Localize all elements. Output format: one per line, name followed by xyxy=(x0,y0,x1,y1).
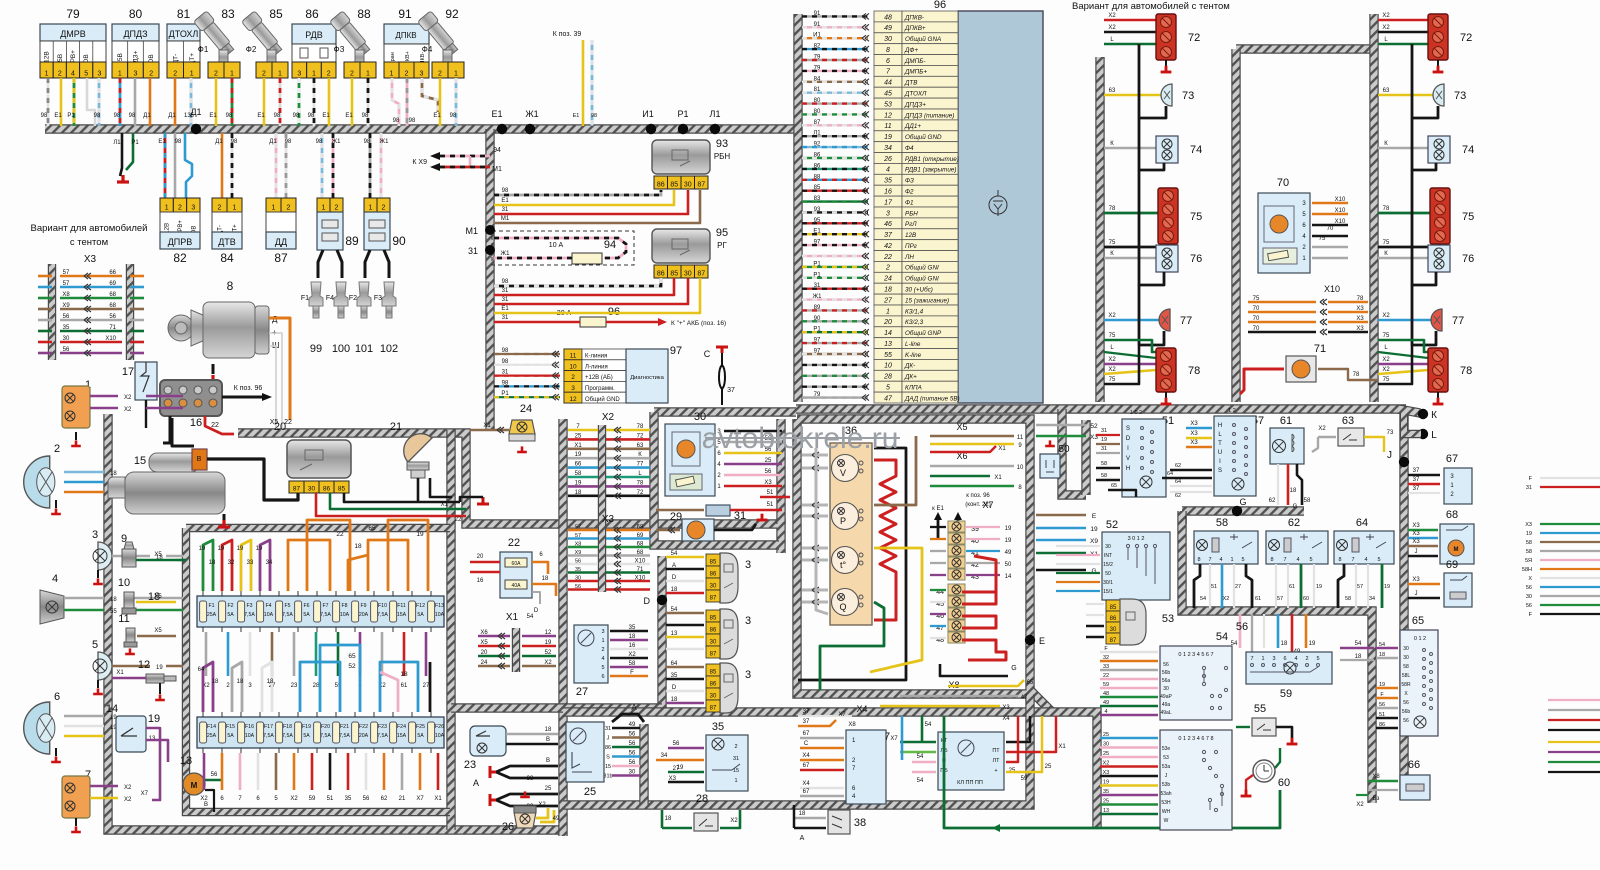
svg-text:24: 24 xyxy=(481,660,488,666)
wires to 69 xyxy=(1408,583,1440,585)
wire cluster green xyxy=(820,602,884,690)
svg-text:12В: 12В xyxy=(905,232,916,239)
svg-text:20А: 20А xyxy=(359,733,369,739)
svg-text:56: 56 xyxy=(109,314,116,320)
svg-text:ДФ+: ДФ+ xyxy=(904,47,918,54)
svg-text:23: 23 xyxy=(464,759,476,771)
svg-text:14: 14 xyxy=(884,330,892,337)
svg-text:+12В (АБ): +12В (АБ) xyxy=(585,375,613,381)
svg-text:63: 63 xyxy=(1109,88,1116,94)
svg-text:86: 86 xyxy=(323,486,331,493)
svg-text:Х2: Х2 xyxy=(124,797,132,803)
svg-text:В: В xyxy=(546,758,550,764)
svg-text:69: 69 xyxy=(637,533,644,539)
svg-text:F3: F3 xyxy=(374,295,382,302)
svg-text:0 1 2 3 4 6 7 8: 0 1 2 3 4 6 7 8 xyxy=(1178,736,1213,742)
svg-text:58: 58 xyxy=(1304,498,1311,504)
svg-text:D: D xyxy=(534,608,539,614)
svg-text:F19: F19 xyxy=(302,724,311,730)
svg-text:72: 72 xyxy=(1188,32,1200,44)
svg-text:53ah: 53ah xyxy=(1160,791,1171,797)
svg-text:Х5: Х5 xyxy=(154,628,162,634)
svg-text:5: 5 xyxy=(601,665,604,671)
svg-text:7,5А: 7,5А xyxy=(282,733,293,739)
svg-text:19: 19 xyxy=(1526,531,1532,537)
svg-text:12: 12 xyxy=(569,396,577,403)
svg-text:35: 35 xyxy=(671,673,678,679)
svg-text:7: 7 xyxy=(1250,656,1253,662)
svg-text:76: 76 xyxy=(1190,253,1202,265)
svg-text:31: 31 xyxy=(468,246,478,256)
svg-text:22: 22 xyxy=(883,254,892,261)
svg-text:75: 75 xyxy=(1319,236,1326,242)
svg-text:10А: 10А xyxy=(435,733,445,739)
wire bus: cluster to main bus diagonal xyxy=(1030,690,1052,712)
svg-text:Х3: Х3 xyxy=(764,480,772,486)
svg-text:58: 58 xyxy=(1216,517,1228,529)
svg-text:F4: F4 xyxy=(326,295,334,302)
svg-text:62: 62 xyxy=(1269,498,1276,504)
sensor 84 ДТВ xyxy=(212,198,227,212)
svg-text:1: 1 xyxy=(272,205,276,212)
svg-text:31: 31 xyxy=(1526,485,1532,491)
svg-text:20А: 20А xyxy=(359,612,369,618)
svg-text:30: 30 xyxy=(710,584,717,590)
svg-text:3: 3 xyxy=(886,210,890,217)
svg-text:к поз. 96: к поз. 96 xyxy=(966,493,990,499)
svg-text:2: 2 xyxy=(178,205,182,212)
svg-text:78: 78 xyxy=(637,424,644,430)
svg-text:F7: F7 xyxy=(322,603,328,609)
wires cluster left side xyxy=(802,454,828,457)
svg-text:31: 31 xyxy=(502,370,509,376)
svg-text:J: J xyxy=(607,736,610,742)
svg-text:77: 77 xyxy=(637,462,644,468)
svg-text:52: 52 xyxy=(1090,423,1098,430)
svg-text:71: 71 xyxy=(1314,343,1326,355)
svg-text:53а: 53а xyxy=(1162,764,1171,770)
svg-text:Х5: Х5 xyxy=(956,422,967,432)
lamp 73 (column 0) xyxy=(1104,94,1170,97)
svg-text:86: 86 xyxy=(710,572,717,578)
svg-text:0 1 2: 0 1 2 xyxy=(1414,636,1426,642)
svg-text:Д1: Д1 xyxy=(168,113,176,119)
svg-text:ДПКВ+: ДПКВ+ xyxy=(904,25,926,32)
svg-text:2: 2 xyxy=(214,71,218,78)
svg-text:85: 85 xyxy=(814,185,821,191)
resistor 31 xyxy=(706,505,730,516)
svg-text:51: 51 xyxy=(767,502,774,508)
svg-text:Х3: Х3 xyxy=(1412,531,1420,537)
relay 93 RBN xyxy=(652,140,710,174)
wire bus: A-column vertical xyxy=(639,724,648,805)
svg-text:62: 62 xyxy=(1175,493,1181,499)
svg-text:17: 17 xyxy=(884,199,893,206)
svg-text:88: 88 xyxy=(357,7,371,21)
svg-text:30: 30 xyxy=(629,770,636,776)
svg-text:5: 5 xyxy=(886,385,890,392)
svg-text:19: 19 xyxy=(1090,526,1098,533)
wire 71 red xyxy=(1240,369,1284,394)
svg-text:7: 7 xyxy=(1208,557,1211,563)
svg-text:75: 75 xyxy=(1190,211,1202,223)
svg-text:3: 3 xyxy=(92,529,98,541)
svg-text:98: 98 xyxy=(502,380,509,386)
svg-text:КЗ/1,4: КЗ/1,4 xyxy=(905,308,924,315)
svg-text:61: 61 xyxy=(1255,596,1261,602)
svg-text:J: J xyxy=(1415,549,1418,555)
svg-text:25А: 25А xyxy=(207,612,217,618)
svg-text:65: 65 xyxy=(1111,483,1117,489)
svg-text:1: 1 xyxy=(278,71,282,78)
svg-text:19: 19 xyxy=(237,546,244,552)
svg-text:Л1: Л1 xyxy=(813,131,821,137)
svg-text:87: 87 xyxy=(697,182,705,189)
svg-text:86: 86 xyxy=(657,271,665,278)
svg-text:ПРг: ПРг xyxy=(905,243,917,250)
svg-text:54: 54 xyxy=(1200,596,1206,602)
svg-text:94: 94 xyxy=(604,239,616,251)
wire cluster gray loop xyxy=(816,448,828,614)
svg-text:18: 18 xyxy=(209,560,216,566)
node J right bus xyxy=(1399,457,1409,467)
svg-text:19: 19 xyxy=(148,713,160,725)
node E1 on bus xyxy=(497,124,507,134)
svg-text:Х2: Х2 xyxy=(1382,357,1390,363)
wire lamp 3 xyxy=(112,555,150,558)
svg-text:101: 101 xyxy=(355,343,373,355)
svg-text:РДВ1 (закрытие): РДВ1 (закрытие) xyxy=(905,167,957,174)
svg-text:Х7: Х7 xyxy=(416,796,424,802)
svg-text:54: 54 xyxy=(527,614,534,620)
svg-text:20: 20 xyxy=(477,554,484,560)
svg-text:Х7: Х7 xyxy=(890,736,898,742)
wire block16 arrow K poz 96 xyxy=(222,396,262,399)
svg-text:54: 54 xyxy=(917,778,924,784)
svg-text:54: 54 xyxy=(925,722,932,728)
svg-text:91: 91 xyxy=(814,22,821,28)
wires bus to diag 97 xyxy=(494,353,560,355)
svg-text:Х3: Х3 xyxy=(1190,440,1198,446)
svg-text:65: 65 xyxy=(368,525,376,532)
wires bus to 56 xyxy=(1100,737,1158,739)
wires to 67 xyxy=(1408,474,1440,477)
svg-text:85: 85 xyxy=(710,616,717,622)
svg-text:18: 18 xyxy=(545,727,552,733)
svg-text:98: 98 xyxy=(450,113,457,119)
wires injector 92 to bus xyxy=(439,78,442,126)
svg-text:30: 30 xyxy=(684,271,692,278)
svg-text:F13: F13 xyxy=(435,603,444,609)
wires bus to 54 xyxy=(1100,651,1158,653)
svg-text:19: 19 xyxy=(218,546,225,552)
fuse 94 10A xyxy=(492,231,634,265)
svg-text:96: 96 xyxy=(934,0,946,11)
svg-text:3: 3 xyxy=(601,629,604,635)
svg-text:J: J xyxy=(1415,591,1418,597)
svg-text:58R: 58R xyxy=(1401,682,1411,688)
svg-text:4: 4 xyxy=(1364,557,1367,563)
svg-text:52: 52 xyxy=(1106,519,1118,531)
svg-text:Ф1: Ф1 xyxy=(905,199,914,206)
wire sensor 11 xyxy=(137,635,176,638)
svg-text:7,5А: 7,5А xyxy=(282,612,293,618)
svg-text:22: 22 xyxy=(211,422,219,429)
svg-text:Х4: Х4 xyxy=(1002,716,1010,722)
wires left bus to relay 93 xyxy=(494,190,661,195)
svg-text:Х1: Х1 xyxy=(1058,744,1066,750)
wires bus to coil 90 xyxy=(369,133,372,198)
svg-text:Общий GND: Общий GND xyxy=(905,133,942,141)
svg-text:8: 8 xyxy=(1338,557,1341,563)
svg-text:18: 18 xyxy=(575,490,582,496)
wires block 37 xyxy=(800,737,844,739)
svg-text:61: 61 xyxy=(1289,584,1295,590)
svg-text:57: 57 xyxy=(1357,584,1363,590)
svg-text:18: 18 xyxy=(629,634,636,640)
wire bus: fuse box outer right vertical xyxy=(446,430,455,830)
svg-text:5: 5 xyxy=(1316,656,1319,662)
svg-text:С: С xyxy=(704,349,711,359)
svg-text:15: 15 xyxy=(134,455,146,467)
svg-text:67: 67 xyxy=(803,789,810,795)
svg-text:64: 64 xyxy=(671,661,678,667)
svg-text:58: 58 xyxy=(629,661,636,667)
svg-text:55: 55 xyxy=(110,609,117,615)
svg-text:А: А xyxy=(800,835,805,842)
svg-text:Х2: Х2 xyxy=(1108,357,1116,363)
svg-text:КЗ/2,3: КЗ/2,3 xyxy=(905,319,924,326)
svg-text:Х6: Х6 xyxy=(480,630,488,636)
svg-text:30 (+Uбс): 30 (+Uбс) xyxy=(905,286,933,294)
wires G-bus to 59 xyxy=(1185,516,1187,524)
svg-text:10 А: 10 А xyxy=(549,242,564,249)
svg-text:62: 62 xyxy=(1288,517,1300,529)
svg-text:10А: 10А xyxy=(435,612,445,618)
svg-text:30: 30 xyxy=(1103,742,1109,748)
svg-text:19: 19 xyxy=(1103,780,1109,786)
wire bus: instrument cluster rectangle xyxy=(797,419,1030,694)
svg-text:D: D xyxy=(1126,436,1131,442)
svg-text:4: 4 xyxy=(1104,709,1107,715)
node I1 on bus xyxy=(646,124,656,134)
wires lamp 4 xyxy=(64,597,104,600)
svg-text:Х7: Х7 xyxy=(982,500,993,510)
svg-text:ДПДЗ+: ДПДЗ+ xyxy=(904,101,926,108)
svg-text:18: 18 xyxy=(237,679,244,685)
svg-text:F20: F20 xyxy=(321,724,330,730)
svg-text:57: 57 xyxy=(575,525,581,531)
svg-text:V: V xyxy=(1126,456,1130,462)
svg-text:87: 87 xyxy=(814,120,821,126)
svg-text:16: 16 xyxy=(477,578,484,584)
svg-text:83: 83 xyxy=(221,7,235,21)
svg-text:63: 63 xyxy=(637,443,644,449)
relay 95 RG xyxy=(652,229,710,263)
svg-text:82: 82 xyxy=(173,251,187,265)
svg-text:Х: Х xyxy=(1528,576,1532,582)
svg-text:35: 35 xyxy=(1103,789,1109,795)
svg-text:F15: F15 xyxy=(226,724,235,730)
svg-text:ФЗ: ФЗ xyxy=(905,178,914,185)
svg-text:7,5А: 7,5А xyxy=(263,733,274,739)
svg-text:1: 1 xyxy=(1261,656,1264,662)
svg-text:К: К xyxy=(1431,410,1437,421)
svg-text:44: 44 xyxy=(884,80,892,87)
svg-text:Х1: Х1 xyxy=(434,796,442,802)
wires relay20 and horn drops xyxy=(316,493,466,516)
svg-text:3: 3 xyxy=(191,205,195,212)
wire coil 90 to plugs xyxy=(365,250,370,278)
svg-text:18: 18 xyxy=(665,816,672,822)
lamp 72 (column 1) xyxy=(1378,19,1428,22)
svg-text:98: 98 xyxy=(409,118,416,124)
svg-text:52: 52 xyxy=(348,663,356,670)
wires right of cluster xyxy=(1036,424,1086,426)
svg-text:ДТОХЛ: ДТОХЛ xyxy=(169,29,199,39)
svg-text:Х5: Х5 xyxy=(154,552,162,558)
wire cluster black down xyxy=(798,448,906,680)
svg-text:К поз. 39: К поз. 39 xyxy=(553,31,582,38)
svg-text:55: 55 xyxy=(884,352,892,359)
svg-text:Х3: Х3 xyxy=(1356,306,1364,312)
wire lamp 5 xyxy=(112,665,150,668)
svg-text:37: 37 xyxy=(1413,477,1420,483)
wire bus to lamp 24 xyxy=(470,429,509,432)
svg-text:Х2: Х2 xyxy=(1318,426,1326,432)
svg-text:62: 62 xyxy=(381,796,388,802)
svg-text:102: 102 xyxy=(380,343,398,355)
svg-text:М1: М1 xyxy=(465,226,478,236)
svg-text:ДТВ: ДТВ xyxy=(218,237,236,247)
svg-text:30: 30 xyxy=(1163,686,1169,692)
svg-text:98: 98 xyxy=(362,113,369,119)
svg-text:35: 35 xyxy=(63,325,70,331)
wire bus: block-30 enclosure xyxy=(654,407,796,416)
svg-text:59: 59 xyxy=(1021,776,1028,782)
svg-text:5А: 5А xyxy=(303,612,310,618)
svg-text:5А: 5А xyxy=(417,612,424,618)
wires relay 64 down xyxy=(1338,564,1344,608)
connector X7 lamp column lower xyxy=(948,584,965,595)
wire 71 right 78 xyxy=(1318,369,1378,380)
svg-text:13: 13 xyxy=(671,631,678,637)
svg-text:Х8: Х8 xyxy=(62,292,70,298)
svg-text:K-line: K-line xyxy=(905,352,922,359)
node D on D-column xyxy=(657,595,667,605)
wire sensor 12 xyxy=(112,677,146,680)
svg-text:Д1: Д1 xyxy=(269,139,277,145)
svg-text:Х4: Х4 xyxy=(802,781,810,787)
svg-text:47: 47 xyxy=(884,395,893,402)
svg-text:Диагностика: Диагностика xyxy=(630,375,664,381)
svg-text:19: 19 xyxy=(1309,641,1316,647)
svg-text:52: 52 xyxy=(545,650,552,656)
svg-text:59: 59 xyxy=(1103,682,1109,688)
svg-text:12: 12 xyxy=(545,630,552,636)
svg-text:15 (зажигание): 15 (зажигание) xyxy=(905,297,949,304)
svg-text:T: T xyxy=(1218,441,1222,447)
wire bus: tent central left vertical xyxy=(1231,49,1240,402)
svg-text:3: 3 xyxy=(134,71,138,78)
wire block16 down to starter xyxy=(163,416,170,443)
svg-text:Х10: Х10 xyxy=(635,576,646,582)
wires relay 58 down xyxy=(1194,564,1200,608)
svg-text:Х2: Х2 xyxy=(1108,13,1116,19)
svg-text:61: 61 xyxy=(401,683,408,689)
svg-text:Вариант для автомобилей: Вариант для автомобилей xyxy=(31,223,148,234)
svg-text:H: H xyxy=(1218,423,1222,429)
svg-text:49: 49 xyxy=(553,816,560,822)
svg-text:РДВ1 (открытие): РДВ1 (открытие) xyxy=(905,156,959,163)
svg-text:64: 64 xyxy=(198,667,205,673)
node K right xyxy=(1418,409,1428,419)
svg-text:Е: Е xyxy=(1039,636,1045,646)
svg-text:А: А xyxy=(672,563,676,569)
wires block 49 left xyxy=(900,741,936,744)
svg-text:58: 58 xyxy=(1345,596,1351,602)
svg-text:70: 70 xyxy=(1253,326,1260,332)
node D1 on bus xyxy=(191,124,201,134)
svg-text:F6: F6 xyxy=(303,603,309,609)
wire bus: left small bus at block 50 xyxy=(1062,409,1086,495)
svg-text:55: 55 xyxy=(1254,703,1266,715)
fuse 94 loop wire xyxy=(494,238,626,258)
svg-text:98: 98 xyxy=(308,113,315,119)
svg-text:79: 79 xyxy=(66,7,80,21)
svg-text:L: L xyxy=(1431,430,1437,441)
svg-text:57: 57 xyxy=(1277,596,1283,602)
svg-text:10: 10 xyxy=(569,363,577,370)
svg-text:РДВ: РДВ xyxy=(305,30,323,40)
svg-text:М1: М1 xyxy=(492,166,502,173)
svg-text:F8: F8 xyxy=(341,603,347,609)
svg-text:Общий GNP: Общий GNP xyxy=(905,329,942,337)
svg-text:ДК-: ДК- xyxy=(904,363,915,370)
svg-text:31: 31 xyxy=(502,288,509,294)
svg-text:Ж1: Ж1 xyxy=(525,109,538,119)
svg-text:58: 58 xyxy=(1526,549,1532,555)
svg-text:Х2: Х2 xyxy=(1108,25,1116,31)
svg-text:18: 18 xyxy=(799,811,806,817)
wires sensor 81 to bus xyxy=(174,78,177,126)
svg-text:97: 97 xyxy=(814,338,821,344)
wires below switch bus to 59 xyxy=(1239,614,1242,648)
svg-text:63: 63 xyxy=(1342,415,1354,427)
svg-text:86: 86 xyxy=(657,182,665,189)
svg-text:34: 34 xyxy=(1369,596,1375,602)
svg-text:18: 18 xyxy=(1379,652,1385,658)
svg-text:98: 98 xyxy=(502,279,509,285)
svg-text:1: 1 xyxy=(45,71,49,78)
svg-text:11: 11 xyxy=(570,353,577,360)
svg-text:86: 86 xyxy=(305,7,319,21)
svg-text:F: F xyxy=(630,670,634,676)
svg-text:30: 30 xyxy=(710,694,717,700)
svg-text:46: 46 xyxy=(884,221,892,228)
wires clock 60 xyxy=(1246,775,1253,790)
svg-text:58: 58 xyxy=(1101,473,1107,479)
ground alternator xyxy=(212,364,215,374)
svg-text:15: 15 xyxy=(605,764,611,770)
svg-text:90: 90 xyxy=(392,234,406,248)
wires left bus to relay 95 xyxy=(494,278,661,286)
svg-text:92: 92 xyxy=(445,7,459,21)
svg-text:F11: F11 xyxy=(397,603,406,609)
wires block 51 bottom 65 xyxy=(1108,490,1136,497)
wire bus: fuse box outer rectangle xyxy=(108,414,562,830)
svg-text:F25: F25 xyxy=(416,724,425,730)
